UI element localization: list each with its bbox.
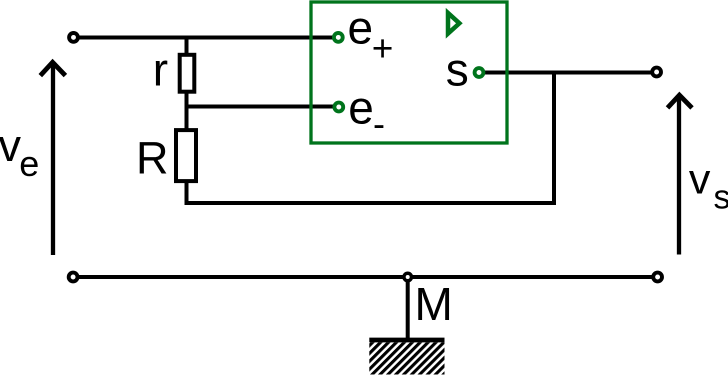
svg-text:s: s [446,44,469,96]
svg-text:M: M [415,278,453,330]
svg-text:r: r [153,44,168,96]
svg-text:v: v [689,156,711,204]
svg-text:v: v [0,120,22,171]
svg-text:e: e [348,2,374,54]
svg-text:-: - [373,103,385,144]
svg-text:s: s [714,179,728,217]
svg-text:e: e [19,143,39,184]
svg-text:e: e [348,82,374,134]
svg-text:R: R [136,133,169,184]
svg-text:+: + [372,28,394,69]
